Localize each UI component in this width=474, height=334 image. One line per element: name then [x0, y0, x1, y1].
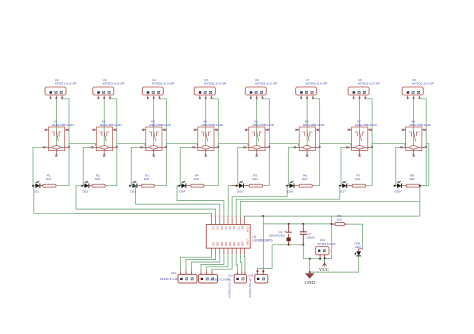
svg-text:2B: 2B [216, 242, 219, 247]
wire [313, 99, 320, 146]
wire [288, 147, 295, 185]
wire [312, 147, 319, 186]
pin 15 (top) [223, 217, 225, 224]
svg-text:KF301-5.0-3P: KF301-5.0-3P [103, 82, 125, 86]
wire [396, 147, 402, 185]
connector U12 (KF301-5.0-2P) [315, 238, 335, 259]
svg-text:COM: COM [246, 226, 249, 232]
capacitor C1 100nF [300, 224, 315, 245]
wire [130, 186, 220, 218]
svg-text:RMH-05B-112D: RMH-05B-112D [303, 123, 325, 127]
svg-text:KF301-5.0-3P: KF301-5.0-3P [412, 82, 434, 86]
node [319, 258, 321, 260]
relay K5 (RMH-05B-112D) [243, 120, 274, 157]
connector U15 (KF301-5.0-3P) [255, 270, 268, 283]
pin 14 (top) [227, 217, 229, 224]
supply VCC [319, 258, 329, 272]
svg-text:4C: 4C [224, 226, 227, 231]
node [262, 270, 264, 272]
svg-text:1kΩ: 1kΩ [409, 177, 415, 181]
svg-text:KF301-5.0-3P: KF301-5.0-3P [228, 278, 232, 298]
svg-text:GND: GND [305, 280, 316, 285]
pin 11 (top) [239, 217, 241, 224]
node out3 [129, 185, 131, 187]
resistor R2 1k [92, 174, 105, 188]
svg-text:KF301-5.0-3P: KF301-5.0-3P [248, 278, 252, 298]
connector U5 (KF301-5.0-3P) [194, 78, 226, 99]
svg-text:DS2: DS2 [82, 189, 88, 193]
node coil7-right [371, 146, 373, 148]
wire [263, 99, 270, 146]
wire [205, 99, 207, 146]
node out4 [178, 185, 180, 187]
wire [331, 216, 333, 224]
pin 18 (top) [211, 217, 213, 224]
node coil4-right [217, 146, 219, 148]
wire [110, 99, 117, 146]
pin 7 (bottom) [235, 248, 237, 254]
svg-text:DS7: DS7 [340, 189, 346, 193]
wire cap rail [262, 216, 264, 271]
node [288, 244, 290, 246]
wire [348, 224, 363, 249]
svg-text:4B: 4B [224, 242, 227, 247]
resistor R8 1k [406, 174, 419, 188]
node [309, 258, 311, 260]
svg-text:1kΩ: 1kΩ [46, 177, 52, 181]
wire [186, 255, 216, 272]
wire [263, 147, 270, 186]
node [302, 244, 304, 246]
LED DS5 [237, 182, 250, 194]
wire [181, 255, 212, 272]
svg-text:KF301-5.0-3P: KF301-5.0-3P [211, 277, 230, 281]
svg-text:7B: 7B [236, 242, 239, 247]
wire [365, 147, 372, 186]
wire [166, 144, 197, 147]
connector U13 (KF301-5.0-3P) [199, 270, 218, 283]
connector U14 (KF301-5.0-3P) [234, 270, 246, 283]
wire [177, 186, 224, 218]
svg-text:1B: 1B [212, 242, 215, 247]
wire [117, 144, 145, 147]
svg-text:+: + [284, 229, 286, 233]
node vcc-col8 [419, 185, 421, 187]
wire [212, 255, 232, 272]
connector U11 (KF301-5.0-3P) [178, 270, 197, 283]
svg-text:U11: U11 [171, 271, 177, 275]
svg-text:KF301-5.0-3P: KF301-5.0-3P [152, 82, 174, 86]
node coil2-right [116, 146, 118, 148]
wire [55, 99, 57, 146]
svg-text:RMH-05B-112D: RMH-05B-112D [253, 123, 275, 127]
pin 2 (bottom) [215, 248, 217, 254]
wire [303, 245, 317, 259]
connector U8 (KF301-5.0-3P) [348, 78, 380, 99]
wire [180, 147, 194, 185]
wire [263, 223, 331, 225]
svg-text:2C: 2C [216, 226, 219, 231]
svg-text:KF301-5.0-3P: KF301-5.0-3P [255, 82, 277, 86]
svg-text:LED: LED [355, 245, 362, 249]
svg-text:3C: 3C [220, 226, 223, 231]
wire [240, 201, 420, 217]
svg-text:6C: 6C [232, 226, 235, 231]
wire [76, 186, 216, 218]
node out5 [236, 185, 238, 187]
pin 8 (bottom) [239, 248, 241, 254]
wire riser to relay8 [419, 215, 420, 217]
svg-text:KF301-5.0-2P: KF301-5.0-2P [318, 242, 336, 246]
node [262, 215, 264, 217]
node [331, 223, 333, 225]
relay K2 (RMH-05B-112D) [91, 120, 122, 157]
relay K4 (RMH-05B-112D) [192, 120, 223, 157]
wire [306, 99, 308, 146]
svg-text:5B: 5B [228, 242, 231, 247]
node [324, 257, 326, 259]
node out7 [339, 185, 341, 187]
connector U3 (KF301-5.0-3P) [93, 78, 125, 99]
pin 5 (bottom) [227, 248, 229, 254]
svg-text:8B: 8B [241, 242, 244, 247]
wire [153, 99, 155, 146]
wire to U12 pin [317, 258, 320, 260]
LED DS7 [340, 182, 352, 194]
svg-text:RMH-05B-112D: RMH-05B-112D [409, 123, 431, 127]
pin 12 (top) [235, 217, 237, 224]
resistor R1 1k [43, 174, 56, 188]
resistor R5 1k [249, 174, 262, 188]
svg-text:100nF: 100nF [306, 236, 315, 240]
wire [83, 147, 92, 185]
node out2 [81, 185, 83, 187]
svg-text:DS4: DS4 [179, 189, 185, 193]
svg-text:RMH-05B-112D: RMH-05B-112D [355, 123, 377, 127]
node coil8-right [425, 146, 427, 148]
wire [232, 186, 287, 218]
svg-text:1kΩ: 1kΩ [252, 177, 258, 181]
pin 10 (top) [244, 217, 246, 224]
wire gnd stem [309, 259, 311, 272]
node out8 [394, 185, 396, 187]
wire [359, 99, 361, 146]
wire [207, 255, 229, 272]
relay K8 (RMH-05B-112D) [400, 120, 431, 157]
svg-text:RMH-05B-112D: RMH-05B-112D [202, 123, 224, 127]
svg-text:8C: 8C [241, 226, 244, 231]
svg-text:5C: 5C [228, 226, 231, 231]
pin 13 (top) [231, 217, 233, 224]
wire [218, 144, 248, 147]
connector U9 (KF301-5.0-3P) [402, 78, 434, 99]
svg-text:3B: 3B [220, 242, 223, 247]
svg-text:ULN2803APG: ULN2803APG [252, 238, 273, 242]
wire [341, 147, 348, 185]
wire [256, 99, 258, 146]
wire [420, 147, 427, 186]
pin 16 (top) [219, 217, 221, 224]
svg-text:1kΩ: 1kΩ [95, 177, 101, 181]
wire [105, 147, 117, 186]
svg-text:KF301-5.0-3P: KF301-5.0-3P [160, 277, 179, 281]
resistor R4 1k [191, 174, 204, 188]
LED DS6 [287, 182, 299, 194]
connector U2 (KF301-5.0-3P) [45, 78, 77, 99]
LED DS2 [82, 182, 92, 194]
wire [56, 147, 69, 186]
connector U7 (KF301-5.0-3P) [296, 78, 328, 99]
wire gnd rail [272, 244, 303, 246]
wire [69, 144, 96, 147]
svg-text:100uF/25V: 100uF/25V [269, 234, 285, 238]
relay K7 (RMH-05B-112D) [346, 120, 377, 157]
relay K3 (RMH-05B-112D) [140, 120, 171, 157]
svg-text:6B: 6B [232, 242, 235, 247]
resistor R9 1k [332, 214, 348, 226]
node coil3-right [165, 146, 167, 148]
svg-text:RMH-05B-112D: RMH-05B-112D [52, 123, 73, 127]
svg-text:1kΩ: 1kΩ [194, 177, 200, 181]
svg-text:GND: GND [246, 240, 249, 246]
node coil1-right [68, 146, 70, 148]
pin 17 (top) [215, 217, 217, 224]
wire [204, 147, 218, 186]
LED DS8 [395, 182, 407, 194]
node out6 [286, 185, 288, 187]
svg-text:VCC: VCC [319, 267, 329, 272]
wire [238, 147, 245, 185]
node [257, 270, 259, 272]
LED DS4 [179, 182, 191, 194]
node [309, 271, 311, 273]
svg-text:1kΩ: 1kΩ [337, 218, 343, 222]
ground GND [305, 272, 316, 285]
wire [62, 99, 69, 146]
wire [325, 224, 332, 258]
pin 4 (bottom) [223, 248, 225, 254]
wire [103, 99, 105, 146]
wire [228, 186, 236, 218]
resistor R7 1k [352, 174, 365, 188]
pin 3 (bottom) [219, 248, 221, 254]
wire [419, 99, 426, 146]
svg-text:1kΩ: 1kΩ [355, 177, 361, 181]
wire [131, 147, 142, 185]
wire [33, 186, 212, 218]
LED DS9 [354, 242, 362, 256]
capacitor C2 100uF/25V [269, 224, 292, 245]
svg-text:KF301-5.0-3P: KF301-5.0-3P [306, 82, 328, 86]
svg-text:1C: 1C [212, 226, 215, 231]
wire [212, 99, 219, 146]
wire [372, 144, 405, 147]
LED DS1 [33, 182, 43, 194]
wire [365, 99, 372, 146]
svg-text:RMH-05B-112D: RMH-05B-112D [150, 123, 172, 127]
svg-text:U14: U14 [248, 274, 254, 278]
pin 1 (bottom) [211, 248, 213, 254]
wire [258, 245, 273, 271]
wire [320, 144, 351, 147]
wire [201, 255, 224, 272]
svg-text:U13: U13 [228, 274, 234, 278]
resistor R6 1k [299, 174, 312, 188]
connector U4 (KF301-5.0-3P) [142, 78, 174, 99]
wire [269, 144, 298, 147]
svg-text:RMH-05B-112D: RMH-05B-112D [100, 123, 122, 127]
node coil6-right [319, 146, 321, 148]
op IC U1 ULN2803APG [206, 225, 273, 249]
LED DS3 [130, 182, 141, 194]
wire VCC rail [245, 216, 419, 217]
node [288, 223, 290, 225]
svg-text:KF301-5.0-3P: KF301-5.0-3P [358, 82, 380, 86]
wire [244, 255, 246, 272]
svg-text:KF301-5.0-3P: KF301-5.0-3P [55, 82, 77, 86]
svg-text:DS6: DS6 [287, 189, 293, 193]
svg-text:DS5: DS5 [237, 189, 243, 193]
resistor R3 1k [141, 174, 154, 188]
svg-text:1kΩ: 1kΩ [302, 177, 308, 181]
wire [154, 147, 166, 186]
svg-text:7C: 7C [236, 226, 239, 231]
svg-text:DS8: DS8 [395, 189, 401, 193]
svg-text:1kΩ: 1kΩ [144, 177, 150, 181]
wire [240, 255, 241, 272]
wire [310, 256, 359, 272]
node out1 [32, 185, 34, 187]
wire [413, 99, 415, 146]
wire [236, 255, 237, 272]
relay K1 (RMH-05B-112D) [43, 120, 74, 157]
pin 6 (bottom) [231, 248, 233, 254]
connector U6 (KF301-5.0-3P) [245, 78, 277, 99]
svg-text:KF301-5.0-3P: KF301-5.0-3P [204, 82, 226, 86]
relay K6 (RMH-05B-112D) [294, 120, 325, 157]
wire [192, 255, 220, 272]
wire [33, 147, 45, 185]
pin 9 (bottom) [244, 248, 246, 254]
wire [421, 144, 429, 186]
node coil5-right [268, 146, 270, 148]
node [302, 223, 304, 225]
wire [160, 99, 167, 146]
wire [236, 186, 340, 218]
